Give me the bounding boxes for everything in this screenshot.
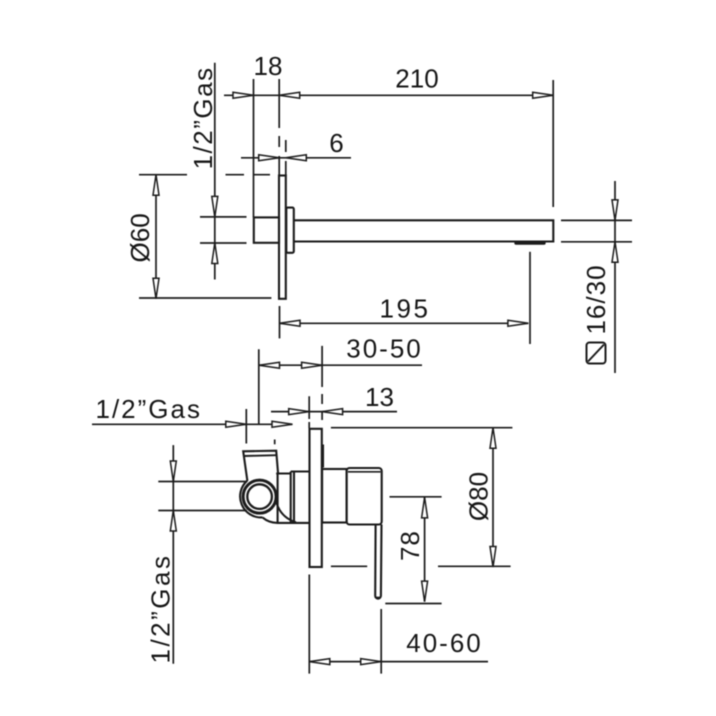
dim arrow xyxy=(361,659,382,665)
dim arrow xyxy=(490,547,496,568)
dim arrow xyxy=(309,659,330,665)
elbow outer casing xyxy=(240,481,262,518)
195 dim xyxy=(280,322,529,324)
inlet elbow stub xyxy=(243,451,278,481)
13 dim xyxy=(271,411,397,413)
ext 210 right x=553.2 xyxy=(552,80,554,207)
16/30 dim xyxy=(614,181,616,373)
dim arrow xyxy=(322,409,343,415)
svg-text:1/2”Gas: 1/2”Gas xyxy=(146,554,176,664)
40-60 dim xyxy=(309,661,488,663)
ext dash right of plate xyxy=(322,445,324,468)
6-dim line xyxy=(241,157,351,159)
dim arrow xyxy=(170,461,176,482)
Ø60 dim line xyxy=(155,175,157,299)
dim arrow xyxy=(212,196,218,217)
dim arrow xyxy=(422,581,428,602)
ext right x=322.1 xyxy=(321,346,323,420)
elbow right fillet xyxy=(276,502,296,523)
port ring inner xyxy=(247,484,272,509)
spout tube xyxy=(294,220,554,241)
elbow bottom transition xyxy=(263,517,309,523)
dim arrow xyxy=(153,175,159,196)
dim arrow xyxy=(153,278,159,299)
dim arrow xyxy=(490,428,496,449)
ext left x=258.8 xyxy=(258,349,260,424)
arrows 18/210 xyxy=(233,92,254,98)
wall flange plate (6mm) xyxy=(279,176,286,299)
Ø80 dim xyxy=(492,428,494,567)
wall plate bottom drawing xyxy=(310,429,322,567)
svg-text:1/2”Gas: 1/2”Gas xyxy=(188,66,218,169)
dim arrow xyxy=(533,92,554,98)
Ø60 top ext dashes xyxy=(139,174,270,176)
78 dim xyxy=(424,497,426,601)
dim arrow xyxy=(289,409,310,415)
dim arrow xyxy=(279,92,300,98)
stub thread band xyxy=(244,454,277,457)
dim arrow xyxy=(508,320,529,326)
ext line 6-dim x=285.8 dashed xyxy=(285,140,287,176)
square-section symbol xyxy=(587,343,606,364)
dim arrow xyxy=(286,155,307,161)
dim arrow xyxy=(212,243,218,264)
dim arrow xyxy=(302,362,323,368)
handle cap xyxy=(347,468,382,525)
left 1/2gas dim (bottom) xyxy=(172,445,174,664)
dim arrow xyxy=(272,421,293,427)
dim arrow xyxy=(226,421,247,427)
dash above stub right xyxy=(274,440,276,445)
svg-text:40-60: 40-60 xyxy=(406,628,483,658)
Ø60 bottom ext xyxy=(139,297,271,299)
1/2gas ext lines xyxy=(200,216,247,218)
handle lever xyxy=(375,525,381,599)
svg-text:210: 210 xyxy=(395,64,438,94)
dim arrow xyxy=(612,242,618,262)
svg-text:6: 6 xyxy=(329,128,343,158)
cartridge collar xyxy=(322,469,347,523)
aerator slot xyxy=(516,241,544,244)
svg-text:16/30: 16/30 xyxy=(581,264,611,334)
spout collar xyxy=(286,208,294,253)
dim arrow xyxy=(422,497,428,518)
svg-text:Ø60: Ø60 xyxy=(125,213,155,262)
svg-text:18: 18 xyxy=(254,51,283,81)
dim arrow xyxy=(259,155,280,161)
1/2gas top dim line x=214.8 xyxy=(214,63,216,280)
svg-text:78: 78 xyxy=(395,530,425,561)
dim arrow xyxy=(170,511,176,532)
svg-text:13: 13 xyxy=(365,382,394,412)
30-50 dim xyxy=(259,364,422,366)
dim arrow xyxy=(280,320,301,326)
svg-text:1/2”Gas: 1/2”Gas xyxy=(96,394,203,424)
svg-text:Ø80: Ø80 xyxy=(464,472,494,521)
svg-text:30-50: 30-50 xyxy=(346,334,423,364)
inlet body rect xyxy=(254,217,279,242)
1/2gas leader xyxy=(92,423,293,425)
port ring outer xyxy=(243,480,276,513)
dim arrow xyxy=(259,362,280,368)
ext line at x=279.2 xyxy=(278,79,280,176)
dim line 18/210 xyxy=(224,94,553,96)
valve block xyxy=(276,472,308,523)
svg-text:195: 195 xyxy=(380,294,431,324)
dim arrow xyxy=(612,200,618,221)
ext line at x=253.5 xyxy=(253,79,255,217)
